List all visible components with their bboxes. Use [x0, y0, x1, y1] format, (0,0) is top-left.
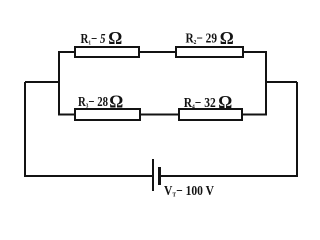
svg-text:R1− 5: R1− 5	[81, 31, 106, 47]
svg-text:R4− 32: R4− 32	[184, 95, 216, 111]
svg-text:R2− 29: R2− 29	[186, 31, 218, 47]
svg-text:Ω: Ω	[220, 28, 234, 48]
svg-text:R3− 28: R3− 28	[78, 94, 108, 110]
svg-text:Ω: Ω	[108, 28, 122, 48]
svg-text:Ω: Ω	[109, 92, 123, 112]
svg-text:VT− 100 V: VT− 100 V	[164, 183, 214, 199]
svg-text:Ω: Ω	[218, 92, 232, 112]
